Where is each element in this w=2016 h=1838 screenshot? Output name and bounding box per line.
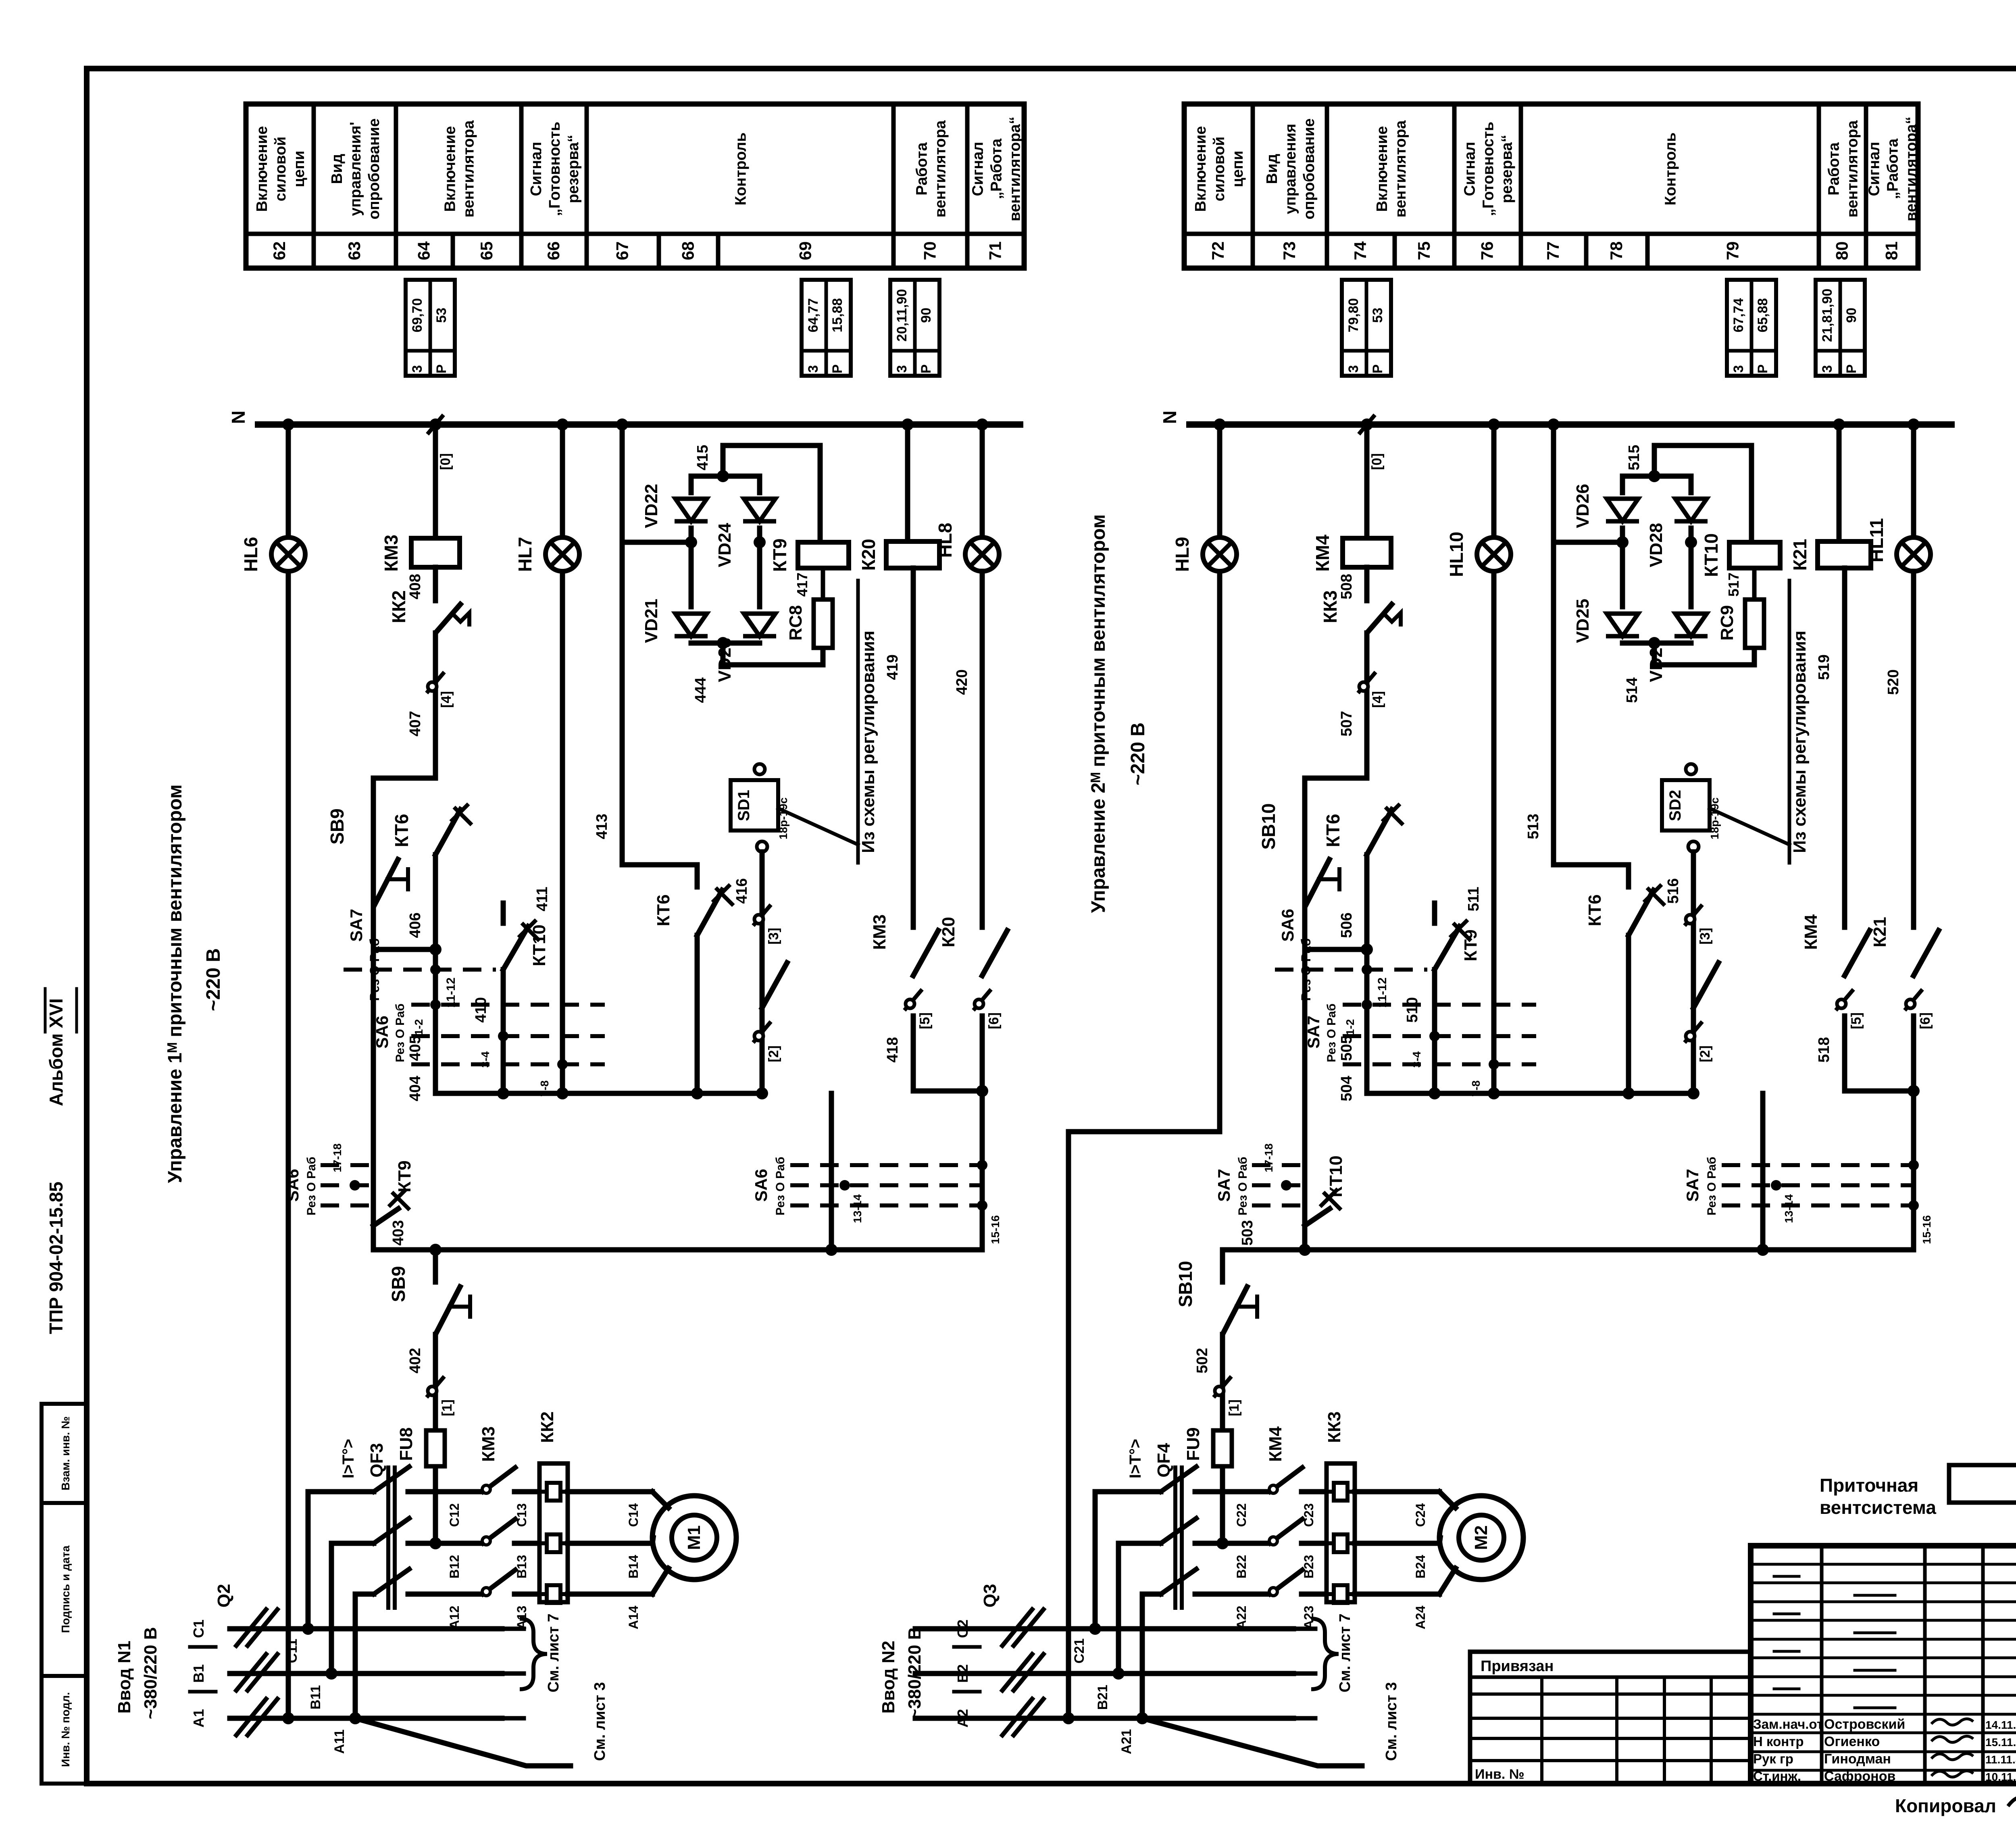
junction — [756, 1087, 768, 1099]
motor feed A — [652, 1568, 669, 1594]
svg-text:504: 504 — [1338, 1076, 1355, 1101]
svg-text:410: 410 — [473, 997, 489, 1022]
wire 444 — [723, 643, 823, 665]
bus marker slash — [427, 415, 444, 434]
wire loop top — [373, 776, 435, 781]
svg-text:Из схемы регулирования: Из схемы регулирования — [1790, 631, 1810, 853]
svg-text:VD28: VD28 — [1646, 523, 1666, 567]
svg-text:503: 503 — [1239, 1220, 1256, 1245]
svg-text:FU9: FU9 — [1183, 1427, 1203, 1461]
junction — [429, 943, 442, 955]
wire 403 right up — [980, 1091, 985, 1250]
svg-text:силовой: силовой — [272, 137, 289, 202]
svg-text:Р: Р — [830, 364, 845, 374]
svg-text:411: 411 — [534, 887, 551, 911]
junction — [325, 1667, 337, 1680]
svg-text:КМ4: КМ4 — [1266, 1426, 1285, 1462]
contact КТ10 — [503, 926, 528, 970]
svg-text:КМ3: КМ3 — [381, 535, 402, 572]
marker slash [5] — [1836, 989, 1854, 1010]
svg-text:КМ3: КМ3 — [870, 914, 889, 950]
svg-text:резерва“: резерва“ — [565, 135, 582, 203]
svg-text:SA6: SA6 — [1278, 909, 1297, 942]
wire 444 — [1654, 643, 1754, 665]
svg-text:Р: Р — [1755, 364, 1770, 374]
svg-text:511: 511 — [1465, 887, 1482, 911]
svg-text:Привязан: Привязан — [1481, 1658, 1554, 1675]
wire 418 jog — [1845, 1016, 1914, 1091]
svg-text:18р-19с: 18р-19с — [777, 797, 789, 839]
coil КМ4 — [1343, 538, 1391, 567]
wire loop bottom — [373, 947, 435, 952]
contact KT6 aux — [697, 890, 722, 935]
svg-text:Рез О Раб: Рез О Раб — [394, 1003, 407, 1062]
wire VD4 down — [1689, 528, 1694, 542]
svg-text:КТ6: КТ6 — [654, 894, 673, 926]
svg-text:Зам.нач.от: Зам.нач.от — [1753, 1717, 1823, 1732]
wire phase B Ввод N1 — [230, 1671, 502, 1676]
switch SA6 row — [1275, 968, 1427, 972]
svg-text:~220 В: ~220 В — [203, 948, 224, 1011]
vent system name box — [1949, 1465, 2016, 1503]
svg-text:FU8: FU8 — [396, 1427, 416, 1461]
thermal relay КК2 box — [539, 1463, 568, 1602]
svg-text:КТ9: КТ9 — [1461, 929, 1481, 961]
svg-text:КТ10: КТ10 — [1326, 1155, 1346, 1197]
svg-text:Р: Р — [434, 364, 449, 374]
svg-text:510: 510 — [1404, 997, 1421, 1022]
breaker pole 1 out — [1195, 1489, 1270, 1495]
left margin box Инв.№ подл. — [42, 1676, 87, 1784]
diode VD27 — [1675, 614, 1707, 636]
junction — [1616, 536, 1629, 548]
svg-text:SA6: SA6 — [752, 1169, 771, 1202]
switch SA mid rows — [1343, 1003, 1536, 1007]
wire bus 504 — [1367, 1091, 1695, 1096]
svg-text:В13: В13 — [514, 1555, 529, 1579]
svg-text:53: 53 — [434, 308, 449, 323]
wire VD2 up — [1620, 476, 1625, 493]
svg-text:Р: Р — [918, 364, 934, 374]
pointer line — [1710, 808, 1789, 845]
svg-text:69,70: 69,70 — [410, 298, 425, 332]
wire VD3 up — [757, 542, 762, 607]
junction — [1136, 1712, 1148, 1724]
breaker pole 2 out — [1195, 1541, 1270, 1546]
wire bus 403 — [373, 1247, 982, 1253]
lamp HL6 — [271, 537, 305, 571]
coil КМ3 — [411, 538, 460, 567]
junction — [1429, 1087, 1441, 1099]
wire SB branch — [1302, 778, 1308, 949]
svg-text:76: 76 — [1478, 241, 1497, 260]
breaker pole 3 out — [408, 1592, 483, 1597]
heater element — [1327, 1585, 1355, 1603]
svg-text:[3]: [3] — [1697, 928, 1713, 945]
wire KT6 aux drop — [1626, 935, 1631, 1093]
svg-text:К20: К20 — [858, 539, 879, 570]
svg-text:С23: С23 — [1302, 1503, 1316, 1527]
svg-text:VD26: VD26 — [1573, 484, 1593, 528]
contactor КМ3 pole 1 — [483, 1467, 515, 1492]
junction — [429, 418, 442, 431]
svg-text:Инв. №: Инв. № — [1475, 1767, 1524, 1782]
wire SA left to 403 — [1302, 1157, 1308, 1250]
wire 419 — [911, 568, 916, 927]
junction — [976, 1085, 988, 1097]
svg-text:Сигнал: Сигнал — [528, 142, 545, 196]
svg-text:„Работа: „Работа — [988, 138, 1005, 199]
svg-text:КК2: КК2 — [537, 1411, 557, 1443]
svg-text:Копировал: Копировал — [1895, 1795, 1996, 1816]
lamp HL9 — [1203, 537, 1237, 571]
svg-text:К20: К20 — [939, 917, 958, 947]
svg-text:SB9: SB9 — [327, 808, 348, 844]
svg-text:[6]: [6] — [1918, 1012, 1933, 1029]
tap см лист 3 — [355, 1718, 571, 1766]
motor М1 — [652, 1496, 736, 1580]
junction — [825, 1244, 837, 1256]
svg-text:КТ9: КТ9 — [395, 1160, 414, 1192]
resistor RC9 — [1745, 599, 1764, 648]
svg-text:403: 403 — [390, 1220, 407, 1245]
svg-text:416: 416 — [733, 878, 750, 903]
wire 402 — [1220, 1334, 1225, 1427]
SA contact dot 11-12 — [430, 964, 441, 975]
svg-text:SB10: SB10 — [1258, 803, 1279, 849]
wire KT6 aux drop — [695, 935, 700, 1093]
svg-text:3: 3 — [1820, 365, 1835, 373]
svg-text:402: 402 — [407, 1348, 424, 1373]
wire RC up — [821, 568, 825, 599]
svg-text:62: 62 — [270, 241, 289, 260]
svg-text:SA7: SA7 — [1214, 1169, 1233, 1202]
svg-text:420: 420 — [954, 669, 971, 695]
svg-text:VD24: VD24 — [715, 522, 735, 567]
svg-text:3-4: 3-4 — [479, 1051, 492, 1068]
bus marker slash — [1359, 415, 1375, 434]
svg-text:78: 78 — [1607, 241, 1626, 260]
breaker pole 2 out — [408, 1541, 483, 1546]
svg-text:I>T°>: I>T°> — [1127, 1439, 1144, 1478]
svg-text:SA7: SA7 — [347, 909, 366, 942]
svg-text:520: 520 — [1885, 669, 1902, 695]
wire KT10 down — [501, 970, 506, 1036]
breaker link bar — [386, 1467, 390, 1608]
svg-text:Сигнал: Сигнал — [1866, 142, 1883, 196]
svg-text:73: 73 — [1280, 241, 1299, 260]
wire coil К20 up — [905, 425, 910, 541]
marker slash [6] — [1905, 989, 1922, 1010]
svg-text:Рез О Раб: Рез О Раб — [774, 1157, 787, 1216]
wire KT6 aux top — [1554, 865, 1629, 887]
contact КМ4 aux 2 — [1693, 963, 1718, 1008]
svg-text:72: 72 — [1208, 241, 1227, 260]
svg-text:В12: В12 — [447, 1555, 462, 1579]
svg-text:А2: А2 — [954, 1709, 971, 1728]
ref box 20,11,90/90 — [890, 280, 939, 376]
wire fuse to B12 — [1220, 1470, 1225, 1543]
svg-text:В22: В22 — [1234, 1555, 1249, 1579]
svg-text:Сафронов: Сафронов — [1824, 1769, 1895, 1784]
wire loop top — [1305, 776, 1367, 781]
wire phase A Ввод N1 — [230, 1716, 502, 1721]
diode VD23 — [744, 614, 775, 636]
junction — [556, 1087, 569, 1099]
button SB10 lower — [1223, 1284, 1248, 1334]
svg-text:В2: В2 — [954, 1664, 971, 1683]
svg-text:КМ4: КМ4 — [1312, 535, 1333, 572]
svg-text:Q3: Q3 — [980, 1584, 1000, 1608]
contact КМ3 aux 2 — [762, 963, 787, 1008]
svg-text:Рез О Раб: Рез О Раб — [1325, 1003, 1338, 1062]
svg-text:Островский: Островский — [1824, 1717, 1905, 1732]
svg-text:14.11.83: 14.11.83 — [1985, 1719, 2016, 1731]
svg-text:506: 506 — [1338, 912, 1355, 938]
left margin box Подпись и дата — [42, 1503, 87, 1676]
wire drop 3-4 — [1432, 1036, 1437, 1093]
svg-text:404: 404 — [407, 1076, 424, 1101]
wire 402 — [433, 1334, 438, 1427]
limit switch box SD1 — [731, 780, 778, 831]
pointer line — [778, 808, 858, 845]
thermal relay КК3 box — [1327, 1463, 1355, 1602]
contactor КМ4 pole 2 — [1270, 1519, 1302, 1543]
svg-text:SA7: SA7 — [1683, 1169, 1702, 1202]
svg-text:Рук гр: Рук гр — [1753, 1751, 1793, 1766]
svg-text:518: 518 — [1816, 1037, 1833, 1062]
svg-text:„Работа: „Работа — [1885, 138, 1901, 199]
diode VD24 — [744, 499, 775, 521]
svg-text:405: 405 — [407, 1035, 424, 1061]
wire 407 — [433, 633, 438, 778]
svg-text:В14: В14 — [626, 1555, 641, 1578]
wire top bar — [1622, 474, 1691, 479]
svg-text:79: 79 — [1723, 241, 1742, 260]
svg-text:опробование: опробование — [1301, 119, 1318, 220]
svg-text:HL6: HL6 — [240, 537, 261, 572]
wire 418 jog — [913, 1016, 982, 1091]
svg-text:Рез О Раб: Рез О Раб — [1236, 1157, 1250, 1216]
contactor КМ4 pole 3 — [1270, 1570, 1302, 1594]
wire SA left to 403 — [371, 1157, 376, 1250]
svg-text:90: 90 — [1844, 308, 1859, 323]
svg-text:Подпись и дата: Подпись и дата — [59, 1545, 72, 1633]
svg-text:HL9: HL9 — [1172, 537, 1193, 572]
brace см лист 7 — [1311, 1619, 1339, 1689]
junction — [1685, 536, 1697, 548]
svg-text:HL7: HL7 — [514, 537, 535, 572]
phase separators — [954, 1645, 980, 1649]
heater element — [539, 1483, 568, 1501]
heater element — [539, 1534, 568, 1552]
wire bus 503 — [1223, 1247, 1914, 1253]
svg-text:В11: В11 — [308, 1685, 323, 1710]
heater out wire — [1355, 1489, 1439, 1495]
heater element — [539, 1585, 568, 1603]
svg-text:QF4: QF4 — [1154, 1443, 1174, 1478]
svg-text:Работа: Работа — [914, 142, 931, 195]
svg-text:65,88: 65,88 — [1755, 298, 1770, 332]
wire 413 lower — [620, 542, 625, 865]
phase separators — [190, 1645, 216, 1649]
svg-text:75: 75 — [1414, 241, 1433, 260]
junction — [1908, 1085, 1920, 1097]
marker slash [4] — [1358, 672, 1376, 693]
svg-text:А24: А24 — [1413, 1605, 1428, 1629]
wire 408 — [1364, 567, 1370, 601]
svg-text:Ввод N1: Ввод N1 — [115, 1641, 134, 1714]
marker slash [3] — [753, 905, 771, 926]
wire VD3 up — [1689, 542, 1694, 607]
underline Из схемы — [1788, 581, 1791, 863]
junction — [556, 418, 569, 431]
svg-text:Р: Р — [1370, 364, 1385, 374]
heater out wire — [568, 1592, 652, 1597]
junction — [976, 418, 988, 431]
svg-text:408: 408 — [407, 574, 424, 599]
wire fuse to B12 — [433, 1470, 438, 1543]
heater out wire — [568, 1489, 652, 1495]
diode VD28 — [1675, 499, 1707, 521]
diode VD26 — [1607, 499, 1638, 521]
SD terminal circle top — [1686, 764, 1696, 774]
switch SA mid rows — [411, 1003, 605, 1007]
lamp HL8 — [965, 537, 999, 571]
contactor pole 1 out — [1302, 1489, 1327, 1495]
svg-text:[0]: [0] — [1369, 453, 1385, 470]
svg-text:А22: А22 — [1234, 1606, 1249, 1630]
marker slash [1] — [427, 1376, 444, 1397]
svg-text:Рез О Раб: Рез О Раб — [1705, 1157, 1718, 1216]
wire KT10 stub — [501, 903, 506, 923]
contact К20 aux 6 — [982, 930, 1007, 976]
svg-text:вентилятора“: вентилятора“ — [1903, 117, 1920, 221]
motor feed A — [1439, 1568, 1456, 1594]
junction — [616, 418, 628, 431]
svg-text:вентилятора: вентилятора — [1844, 120, 1861, 218]
svg-text:79,80: 79,80 — [1346, 298, 1361, 332]
svg-text:См. лист 7: См. лист 7 — [545, 1613, 562, 1692]
marker slash [2] — [753, 1022, 771, 1043]
dot sa right bottom — [977, 1200, 987, 1211]
wire SD drop — [760, 852, 765, 1093]
ref box 64,77/15,88 — [802, 280, 851, 376]
junction HL6 neutral — [282, 1712, 294, 1724]
switch Q3 — [1002, 1609, 1032, 1646]
svg-text:Вид: Вид — [329, 154, 346, 184]
wire VD4 up — [1689, 476, 1694, 493]
junction — [1299, 1244, 1311, 1256]
svg-text:RC9: RC9 — [1717, 605, 1737, 641]
svg-text:1-2: 1-2 — [412, 1019, 425, 1035]
motor feed B — [652, 1538, 653, 1543]
wire 403 right up — [1911, 1091, 1916, 1250]
svg-text:управления': управления' — [347, 122, 364, 216]
svg-text:3: 3 — [894, 365, 910, 373]
wire bus 404 — [435, 1091, 764, 1096]
breaker QF4 pole 3 — [1161, 1569, 1196, 1594]
svg-text:Включение: Включение — [442, 126, 459, 212]
junction — [1216, 1537, 1229, 1549]
svg-text:11.11.83: 11.11.83 — [1985, 1753, 2016, 1766]
svg-text:К21: К21 — [1789, 539, 1810, 570]
wire VD2 down — [1620, 528, 1625, 607]
svg-text:513: 513 — [1525, 814, 1542, 839]
dot 3-4 — [1429, 1031, 1440, 1041]
svg-text:вентилятора“: вентилятора“ — [1007, 117, 1024, 221]
svg-text:вентилятора: вентилятора — [1392, 120, 1409, 218]
breaker QF3 pole 1 — [374, 1467, 409, 1492]
marker slash [3] — [1685, 905, 1702, 926]
svg-text:цепи: цепи — [291, 151, 308, 187]
thermal contact КК3 — [1367, 602, 1393, 633]
junction — [691, 1087, 703, 1099]
underline for XVI — [44, 989, 47, 1032]
stamp outer — [1751, 1546, 2016, 1784]
svg-text:514: 514 — [1624, 677, 1641, 703]
svg-text:RC8: RC8 — [786, 605, 806, 641]
contact КМ3 aux 5 — [913, 930, 938, 976]
marker slash [6] — [973, 989, 991, 1010]
svg-text:ТПР 904-02-15.85: ТПР 904-02-15.85 — [46, 1182, 67, 1334]
wire N bus 2 — [1189, 421, 1951, 428]
svg-text:Сигнал: Сигнал — [1462, 142, 1479, 196]
svg-text:21,81,90: 21,81,90 — [1820, 289, 1835, 342]
svg-text:68: 68 — [679, 241, 698, 260]
svg-text:силовой: силовой — [1211, 137, 1228, 202]
svg-text:70: 70 — [921, 241, 939, 260]
wire 405 drop — [433, 855, 438, 1093]
svg-text:Контроль: Контроль — [1662, 133, 1679, 206]
SD terminal circle top — [754, 764, 765, 774]
wire to coil КМ3 — [433, 425, 438, 538]
svg-text:15.11.83: 15.11.83 — [1985, 1736, 2016, 1748]
svg-text:Огиенко: Огиенко — [1824, 1734, 1880, 1749]
junction — [1361, 943, 1373, 955]
heater out wire — [1355, 1541, 1439, 1546]
svg-text:~380/220 В: ~380/220 В — [141, 1627, 160, 1719]
junction — [302, 1623, 314, 1635]
svg-text:65: 65 — [477, 241, 496, 260]
svg-text:SB9: SB9 — [388, 1266, 409, 1302]
svg-text:А1: А1 — [190, 1709, 207, 1728]
motor feed C — [652, 1492, 669, 1508]
svg-text:КК2: КК2 — [388, 590, 409, 623]
contactor КМ3 pole 2 — [483, 1519, 515, 1543]
svg-text:20,11,90: 20,11,90 — [894, 289, 910, 341]
privyazan rows — [1470, 1692, 1751, 1696]
copyist signature — [2008, 1794, 2016, 1806]
wire 420 — [980, 571, 985, 927]
button SB9 lower — [435, 1284, 461, 1334]
svg-text:вентилятора: вентилятора — [932, 120, 949, 218]
ref box 21,81,90/90 — [1816, 280, 1865, 376]
contactor pole 2 out — [1302, 1541, 1327, 1546]
svg-text:1-2: 1-2 — [1344, 1019, 1356, 1035]
svg-text:VD22: VD22 — [641, 484, 661, 528]
svg-text:КТ10: КТ10 — [1701, 533, 1722, 577]
svg-text:Взам. инв. №: Взам. инв. № — [59, 1416, 72, 1490]
contactor КМ3 pole 3 — [483, 1570, 515, 1594]
wire KT10 stub — [1432, 903, 1437, 923]
wire KT10 down — [1432, 970, 1437, 1036]
svg-text:519: 519 — [1816, 654, 1833, 680]
dot 3-4 — [498, 1031, 508, 1041]
svg-text:КК3: КК3 — [1325, 1411, 1344, 1443]
svg-text:В23: В23 — [1302, 1555, 1316, 1579]
svg-text:Инв. № подл.: Инв. № подл. — [59, 1692, 72, 1767]
